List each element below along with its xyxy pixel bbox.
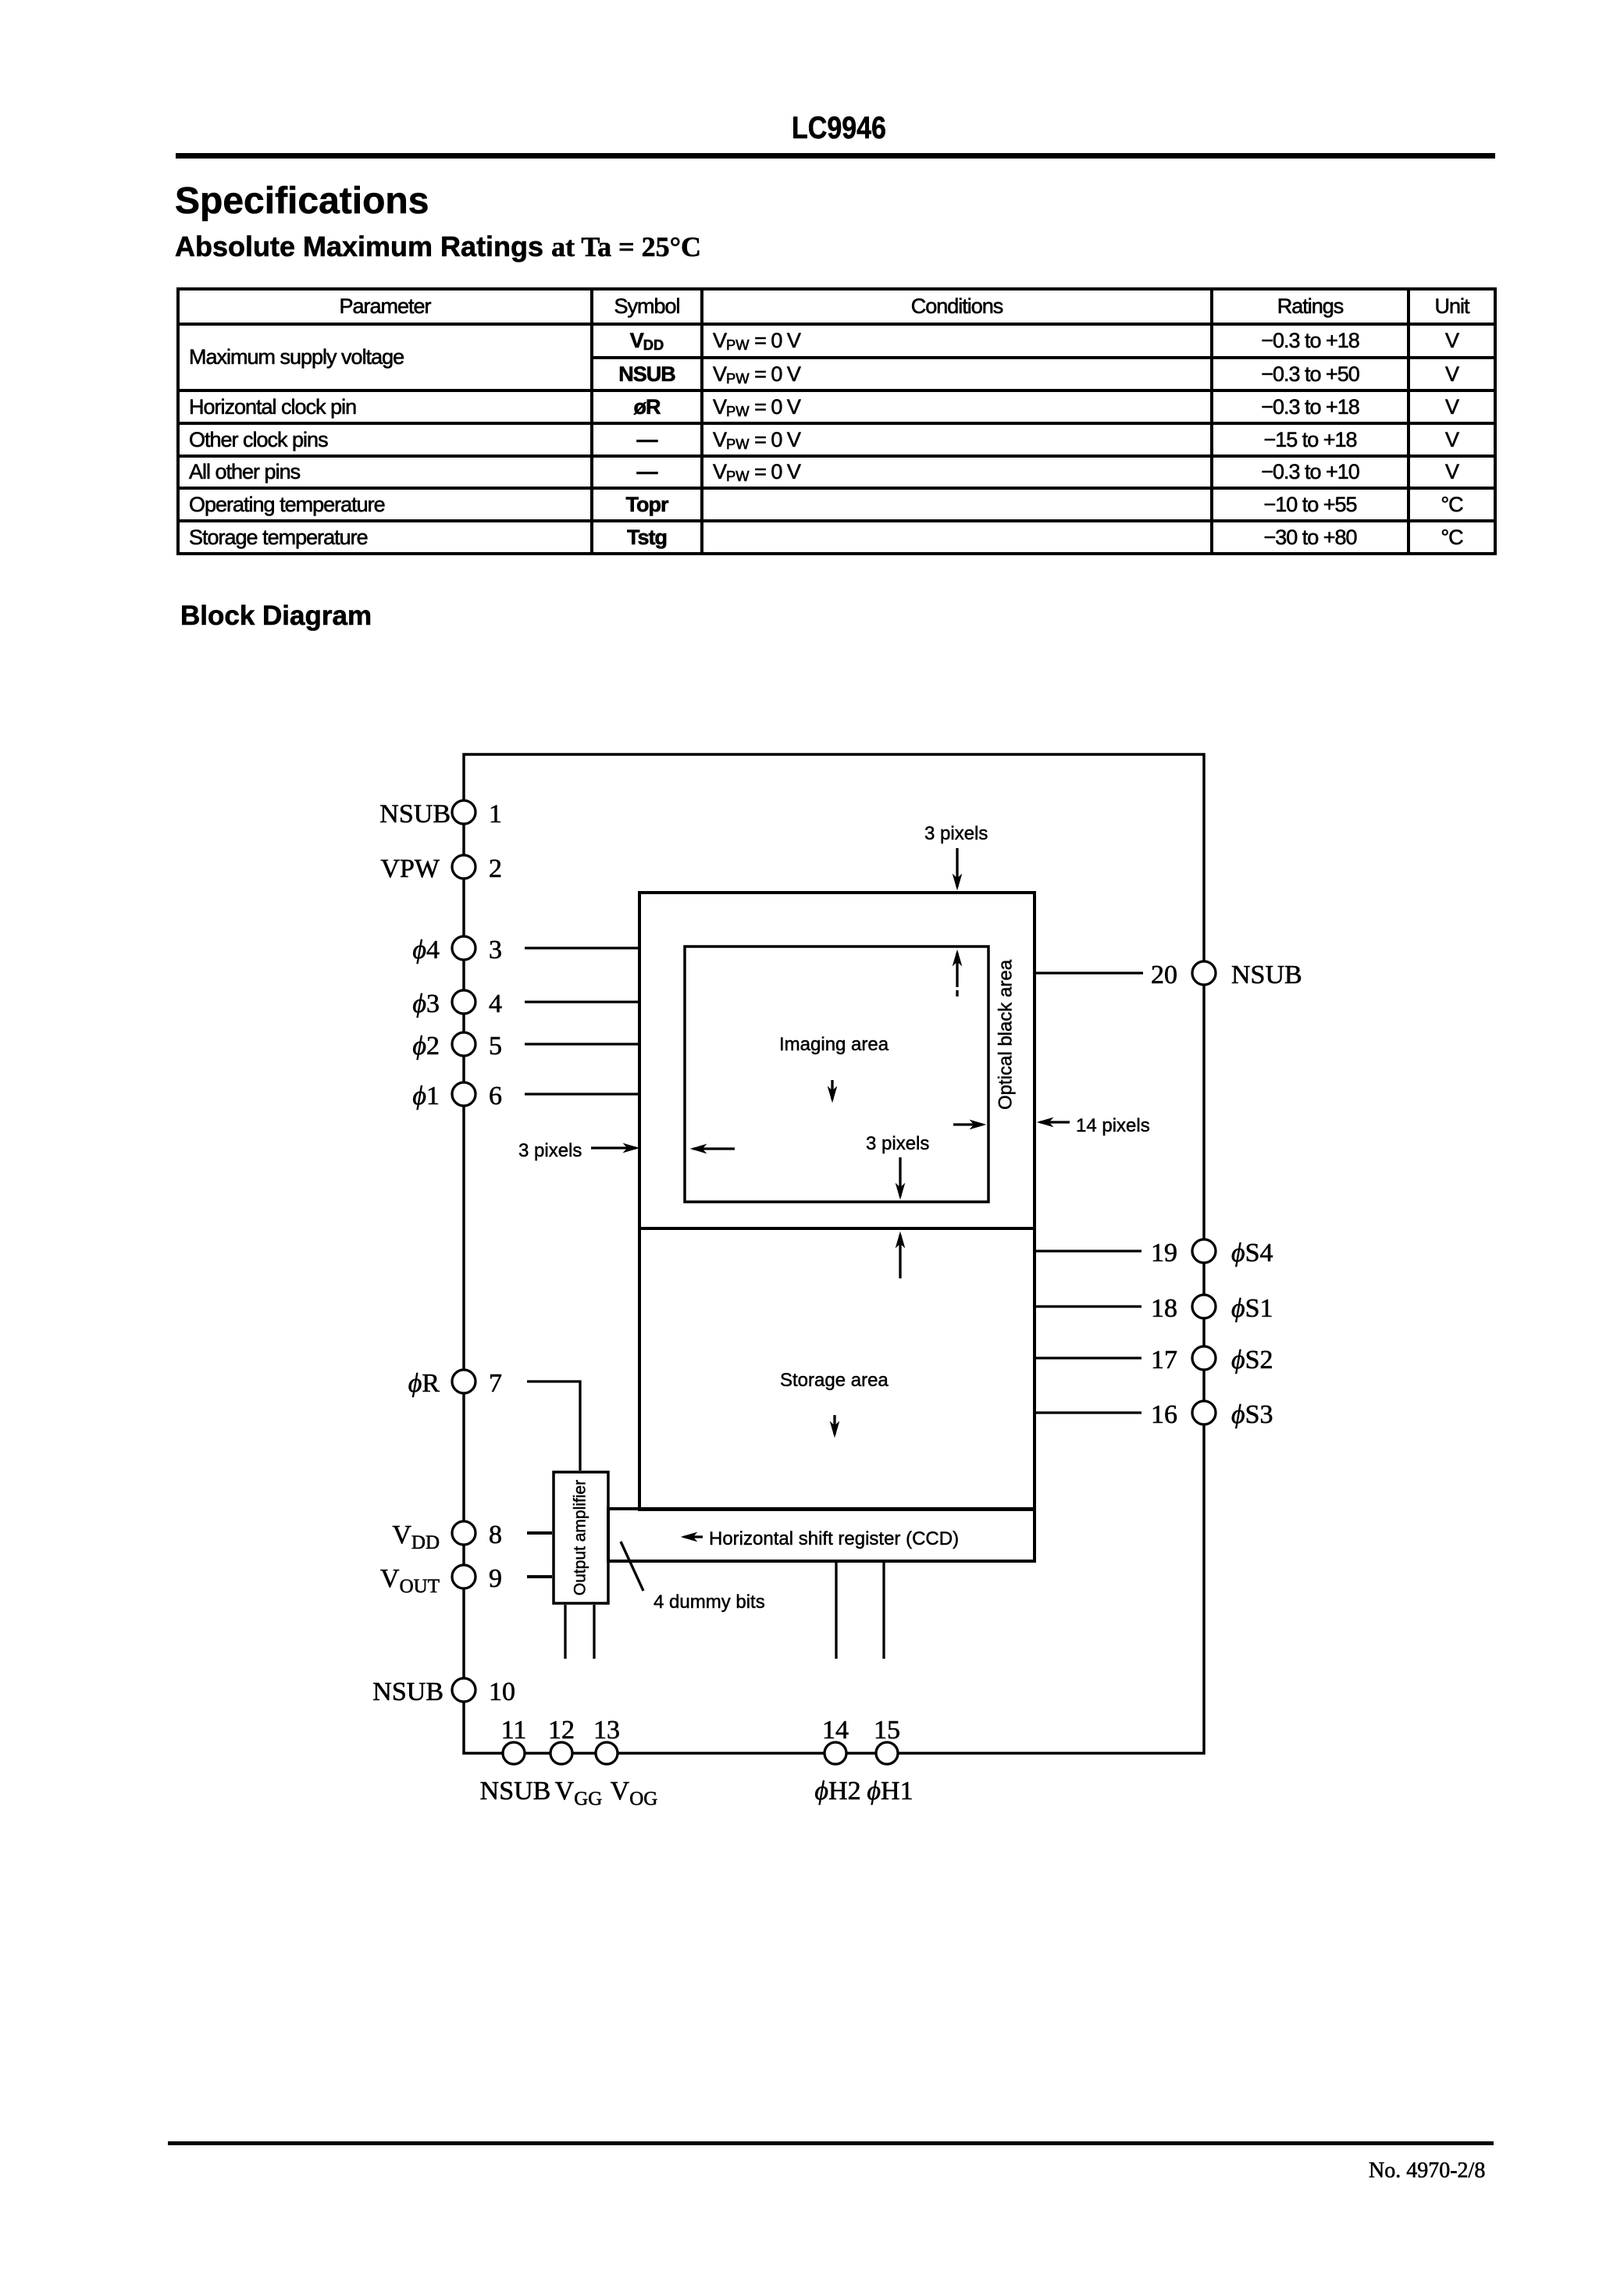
- footer rule: [168, 2141, 1494, 2145]
- svg-text:Horizontal shift register (CCD: Horizontal shift register (CCD): [709, 1528, 959, 1549]
- svg-text:ϕS2: ϕS2: [1231, 1346, 1273, 1374]
- imaging area down arrow: [831, 1080, 833, 1100]
- 14 pixels arrow: [1040, 1121, 1070, 1123]
- arrow in shift register: [684, 1535, 703, 1538]
- svg-text:ϕS3: ϕS3: [1231, 1400, 1273, 1429]
- svg-text:4 dummy bits: 4 dummy bits: [654, 1592, 765, 1613]
- svg-text:Output amplifier: Output amplifier: [572, 1480, 589, 1595]
- outer boundary box of device: [464, 754, 1204, 1753]
- imaging area box: [685, 946, 988, 1202]
- pin 20 circle: [1192, 961, 1216, 985]
- wire pin18 to storage area: [1036, 1305, 1141, 1307]
- pin 4 circle: [452, 990, 475, 1014]
- wire pin9 to output amplifier: [527, 1575, 552, 1578]
- svg-text:16: 16: [1151, 1400, 1177, 1429]
- svg-text:VGG: VGG: [555, 1777, 603, 1809]
- pin 11 circle: [503, 1742, 525, 1764]
- svg-text:17: 17: [1151, 1346, 1177, 1374]
- pin 15 circle: [876, 1742, 898, 1764]
- svg-text:ϕ3: ϕ3: [412, 989, 440, 1018]
- svg-text:10: 10: [489, 1677, 515, 1706]
- svg-text:Imaging area: Imaging area: [779, 1034, 889, 1055]
- svg-text:3 pixels: 3 pixels: [866, 1133, 929, 1154]
- left 3 pixels arrow: [591, 1146, 636, 1149]
- svg-text:NSUB: NSUB: [379, 800, 451, 829]
- svg-text:19: 19: [1151, 1239, 1177, 1267]
- pin 6 circle: [452, 1082, 475, 1106]
- wire pin4 to imaging block: [525, 1000, 638, 1003]
- pin 14 circle: [824, 1742, 846, 1764]
- storage area down arrow: [833, 1415, 835, 1435]
- optical black area box: [639, 893, 1035, 1228]
- svg-text:Storage area: Storage area: [780, 1370, 889, 1391]
- pin 7 circle: [452, 1370, 475, 1393]
- svg-text:ϕR: ϕR: [408, 1369, 440, 1398]
- svg-text:8: 8: [489, 1520, 502, 1549]
- svg-text:ϕS1: ϕS1: [1231, 1294, 1273, 1323]
- shift register lead to pin15: [882, 1563, 885, 1659]
- svg-text:NSUB: NSUB: [372, 1677, 443, 1706]
- wire pin3 to imaging block: [525, 946, 638, 949]
- svg-text:NSUB: NSUB: [480, 1777, 551, 1806]
- svg-text:11: 11: [501, 1716, 527, 1745]
- svg-text:NSUB: NSUB: [1231, 961, 1302, 989]
- imaging right edge arrow: [953, 1123, 983, 1125]
- svg-text:14: 14: [822, 1716, 849, 1745]
- svg-text:15: 15: [874, 1716, 900, 1745]
- svg-text:7: 7: [489, 1369, 502, 1398]
- inner 3 pixels down arrow: [899, 1157, 901, 1196]
- svg-text:VOUT: VOUT: [380, 1564, 440, 1597]
- svg-text:Optical black area: Optical black area: [995, 959, 1016, 1110]
- svg-text:3 pixels: 3 pixels: [924, 823, 988, 844]
- wire pin5 to imaging block: [525, 1043, 638, 1045]
- svg-text:12: 12: [548, 1716, 575, 1745]
- svg-text:13: 13: [593, 1716, 620, 1745]
- pin 12 circle: [550, 1742, 572, 1764]
- svg-text:ϕH1: ϕH1: [867, 1777, 913, 1806]
- svg-text:20: 20: [1151, 961, 1177, 989]
- svg-text:VPW: VPW: [380, 854, 440, 883]
- output amplifier lead A: [564, 1605, 566, 1659]
- storage top up arrow: [899, 1235, 901, 1278]
- shift register lead to pin14: [835, 1563, 837, 1659]
- wire pin16 to storage area: [1036, 1411, 1141, 1414]
- svg-text:2: 2: [489, 854, 502, 883]
- storage area box: [639, 1228, 1035, 1510]
- pin 9 circle: [452, 1565, 475, 1588]
- pin 19 circle: [1192, 1239, 1216, 1263]
- wire pin7 to output amplifier: [527, 1381, 580, 1471]
- imaging top-right up arrow: [956, 953, 958, 987]
- pin 18 circle: [1192, 1295, 1216, 1318]
- pin 17 circle: [1192, 1346, 1216, 1370]
- Block Diagram heading: [180, 602, 372, 629]
- absolute maximum ratings table: [176, 287, 1497, 555]
- pin 1 circle: [452, 800, 475, 824]
- svg-text:4: 4: [489, 989, 502, 1018]
- svg-text:3: 3: [489, 936, 502, 964]
- svg-text:ϕ1: ϕ1: [412, 1082, 440, 1110]
- wire pin8 to output amplifier: [527, 1531, 552, 1535]
- output amplifier lead B: [593, 1605, 595, 1659]
- svg-text:VDD: VDD: [392, 1520, 440, 1553]
- svg-text:5: 5: [489, 1032, 502, 1061]
- svg-text:3 pixels: 3 pixels: [518, 1140, 582, 1161]
- 4 dummy bits pointer line: [621, 1542, 643, 1591]
- Specifications heading: [175, 183, 429, 220]
- svg-text:ϕS4: ϕS4: [1231, 1239, 1273, 1267]
- svg-text:18: 18: [1151, 1294, 1177, 1323]
- pin 8 circle: [452, 1521, 475, 1545]
- top 3 pixels arrow: [956, 848, 958, 887]
- output amplifier U1 box: [554, 1472, 608, 1603]
- Absolute Maximum Ratings subheading: [175, 233, 701, 261]
- pin 5 circle: [452, 1032, 475, 1056]
- horizontal shift register box: [608, 1509, 1035, 1561]
- svg-text:ϕH2: ϕH2: [814, 1777, 860, 1806]
- pin 3 circle: [452, 936, 475, 960]
- svg-text:ϕ2: ϕ2: [412, 1032, 440, 1061]
- svg-text:1: 1: [489, 800, 502, 829]
- header rule: [176, 153, 1495, 159]
- wire pin17 to storage area: [1036, 1356, 1141, 1359]
- wire pin6 to imaging block: [525, 1093, 638, 1095]
- svg-text:9: 9: [489, 1564, 502, 1593]
- pin 2 circle: [452, 855, 475, 879]
- imaging left edge arrow: [693, 1147, 735, 1150]
- pin 10 circle: [452, 1678, 475, 1702]
- svg-text:ϕ4: ϕ4: [412, 936, 440, 964]
- pin 13 circle: [596, 1742, 618, 1764]
- svg-text:6: 6: [489, 1082, 502, 1110]
- svg-text:VOG: VOG: [611, 1777, 658, 1809]
- svg-text:14 pixels: 14 pixels: [1076, 1115, 1150, 1136]
- wire pin20 to optical black area: [1036, 971, 1143, 974]
- pin 16 circle: [1192, 1401, 1216, 1424]
- footer page number: [1369, 2160, 1485, 2182]
- wire pin19 to storage area: [1036, 1250, 1141, 1252]
- header chip name LC9946: [792, 112, 886, 144]
